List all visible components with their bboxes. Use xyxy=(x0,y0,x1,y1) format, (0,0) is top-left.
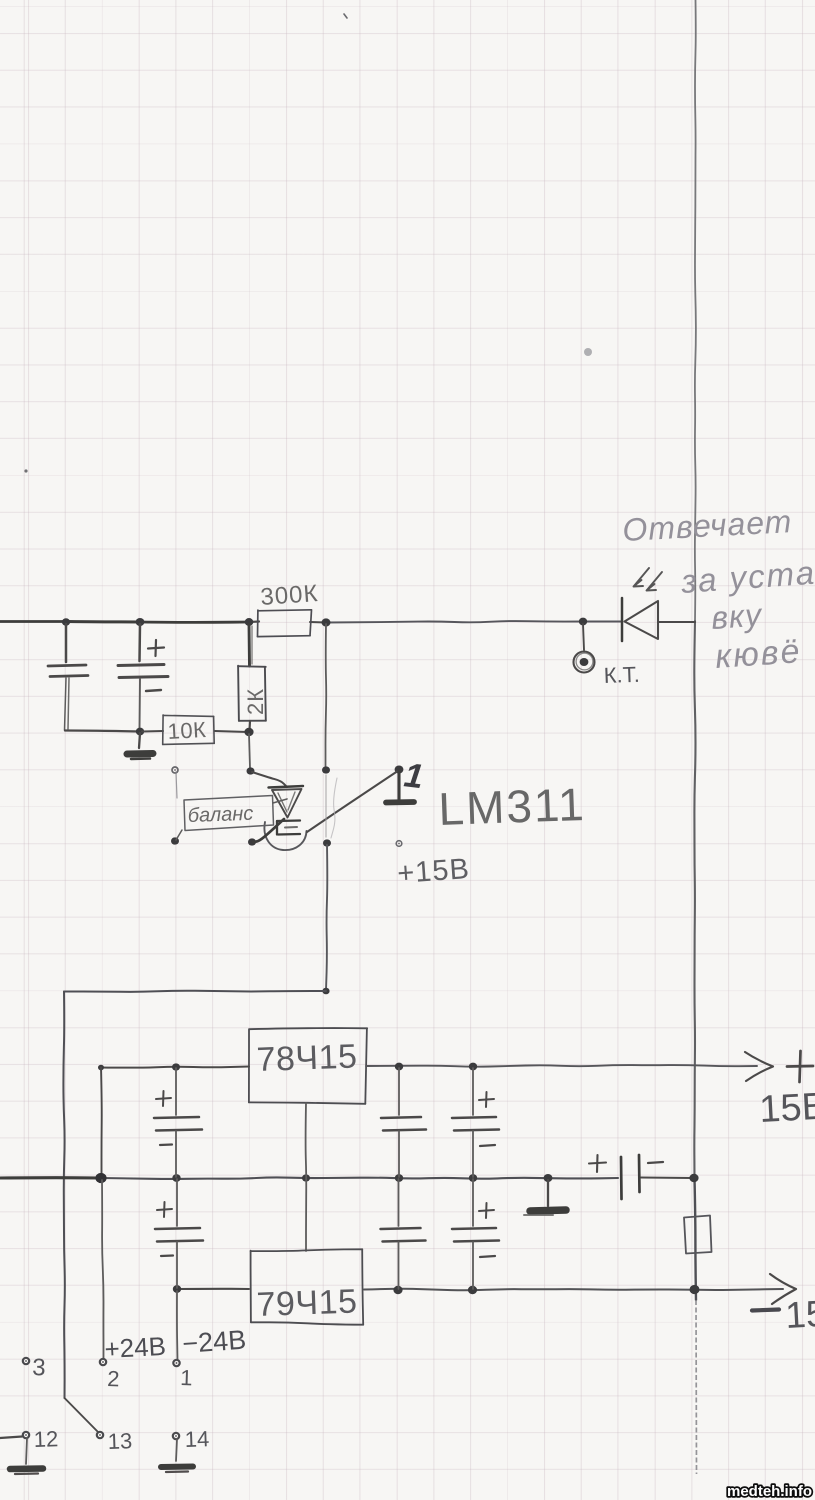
speck top xyxy=(344,14,347,18)
node mid rail C3C4 xyxy=(172,1174,180,1182)
terminal 3 pin xyxy=(23,1358,29,1364)
svg-text:+15В: +15В xyxy=(396,853,471,890)
svg-text:LM311: LM311 xyxy=(438,778,587,835)
node pin row2 b xyxy=(248,838,256,845)
capacitor C9 minus xyxy=(648,1162,663,1163)
capacitor C1 top lead xyxy=(65,624,68,662)
node mid rail gnd xyxy=(544,1174,553,1182)
capacitor C9 plus xyxy=(589,1155,606,1172)
label terminal 1 xyxy=(180,1365,193,1390)
node mid rail C5C6 xyxy=(395,1174,403,1182)
terminal 14 pin xyxy=(173,1433,179,1439)
terminal 14 ground lead xyxy=(176,1439,177,1461)
capacitor C4 (col176 bottom) xyxy=(155,1179,203,1288)
label 10K xyxy=(167,717,207,744)
annotation line1 xyxy=(621,503,793,548)
capacitor C1 plate top xyxy=(48,665,86,666)
photodiode cathode bar xyxy=(621,598,624,641)
wire bottom rail right xyxy=(364,1289,783,1290)
node top rail corner xyxy=(98,1065,104,1071)
transistor body arc xyxy=(264,822,306,850)
label +24V xyxy=(104,1331,167,1364)
arrow top rail xyxy=(745,1052,773,1081)
capacitor C1 bottom lead doubled xyxy=(65,678,70,730)
node top rail C3 xyxy=(172,1063,180,1070)
label 300K xyxy=(260,580,320,611)
label terminal 13 xyxy=(107,1428,132,1454)
capacitor C7 (col473 top) xyxy=(452,1068,499,1177)
svg-text:2К: 2К xyxy=(243,688,268,715)
wire left column upper xyxy=(100,1068,103,1177)
wire terminal2 lead xyxy=(102,1180,104,1359)
resistor 2K bottom lead xyxy=(248,721,251,730)
node top rail C5 xyxy=(395,1063,403,1071)
wire main bus segment A xyxy=(66,620,140,624)
label balance xyxy=(187,803,253,827)
node bottom rail C6 xyxy=(393,1286,402,1294)
capacitor C6 (col399 bottom) xyxy=(381,1179,426,1289)
wire R10K to node xyxy=(215,731,248,732)
svg-text:300К: 300К xyxy=(260,580,320,611)
speck left xyxy=(24,469,27,472)
node top rail C7 xyxy=(469,1063,477,1071)
ground mid rail bar xyxy=(524,1210,566,1215)
label terminal 14 xyxy=(184,1426,209,1452)
photodiode triangle xyxy=(625,601,659,639)
resistor 2K body xyxy=(238,666,266,721)
label -24V xyxy=(181,1325,247,1359)
label 78415 xyxy=(256,1038,358,1079)
annotation line4 xyxy=(714,632,803,676)
svg-text:1: 1 xyxy=(402,756,425,796)
ground pin1 bar xyxy=(386,799,414,805)
wire C1 to C2 bottom xyxy=(65,731,140,732)
capacitor C5 (col399 top) xyxy=(381,1068,426,1177)
transistor lower element xyxy=(277,821,300,835)
capacitor C2 plate top xyxy=(118,665,164,666)
node pin row1 c xyxy=(322,766,330,773)
wire main bus left segment xyxy=(0,620,66,623)
node junction bus-C2 xyxy=(136,618,145,626)
capacitor C2 plate bottom xyxy=(119,677,168,678)
transistor emitter stroke xyxy=(253,819,284,842)
wire node down to pin row xyxy=(249,734,250,768)
wire bottom rail left xyxy=(177,1288,249,1290)
node pin row2 a xyxy=(171,837,179,844)
terminal 1 pin xyxy=(173,1360,179,1366)
photodiode arrow 2 xyxy=(647,572,663,591)
svg-text:вку: вку xyxy=(710,596,764,636)
wire x325 pin to corner xyxy=(326,845,327,990)
svg-text:+24В: +24В xyxy=(104,1331,167,1364)
capacitor C9 right plate xyxy=(638,1155,641,1192)
node bottom rail C4 xyxy=(173,1285,181,1293)
label terminal 12 xyxy=(33,1426,58,1452)
balance box xyxy=(184,796,274,831)
svg-text:10К: 10К xyxy=(167,717,207,744)
wire regulator common xyxy=(305,1103,308,1251)
svg-text:15: 15 xyxy=(784,1293,815,1336)
label plus15 sign xyxy=(787,1051,813,1082)
arrow bottom rail xyxy=(770,1274,796,1304)
wire diode to vertical net xyxy=(658,621,695,623)
wire corner horizontal xyxy=(64,991,326,992)
wire mid rail main xyxy=(101,1177,618,1178)
ground mid rail lead xyxy=(547,1180,549,1206)
wire mid rail from edge xyxy=(0,1176,101,1179)
terminal 12 ground bar xyxy=(10,1469,43,1475)
wire top rail right xyxy=(366,1065,757,1067)
wire main bus into R 300K xyxy=(249,620,259,623)
capacitor C9 left plate xyxy=(620,1157,623,1199)
test point KT outer circle xyxy=(574,652,595,673)
capacitor C2 bottom lead xyxy=(139,679,142,729)
resistor 2K top lead xyxy=(249,624,252,666)
resistor 300K body xyxy=(258,610,312,637)
label LM311 xyxy=(438,778,587,835)
node junction bus-x325 xyxy=(322,618,331,626)
balance pointer xyxy=(273,799,287,803)
terminal 12 ground lead xyxy=(26,1438,27,1464)
balance box top lead xyxy=(176,772,177,798)
wire vertical net x=695 (middle) xyxy=(694,621,695,1178)
node junction bus-KT xyxy=(579,618,587,626)
svg-text:medteh.info: medteh.info xyxy=(727,1483,812,1500)
svg-text:Отвечает: Отвечает xyxy=(621,503,793,548)
label 2K xyxy=(243,688,268,715)
svg-text:12: 12 xyxy=(33,1426,58,1452)
wire vertical net x=695 (bottom faded) xyxy=(695,1300,698,1474)
terminal 13 pin xyxy=(97,1432,103,1438)
terminal 14 ground bar xyxy=(161,1467,193,1473)
wire C2 to R10K xyxy=(142,730,163,733)
transistor wire from pin xyxy=(252,772,287,787)
capacitor C2 plus sign xyxy=(148,640,164,656)
speck gray dot xyxy=(584,348,592,356)
capacitor C3 (col176 top) xyxy=(154,1068,202,1177)
label terminal 3 xyxy=(32,1354,46,1381)
test point KT center xyxy=(580,658,589,666)
node pin row1 d (pin1) xyxy=(395,765,404,773)
wire bus x325 down xyxy=(324,624,327,768)
wire vertical net x=695 (top) xyxy=(695,0,696,621)
label pin1 numeral xyxy=(402,756,425,796)
label 15V bottom xyxy=(784,1293,815,1336)
label KT xyxy=(603,662,640,688)
annotation line2 xyxy=(679,554,815,600)
capacitor C1 plate bottom xyxy=(50,676,88,677)
transistor triangle xyxy=(272,789,302,818)
node junction C2-gnd xyxy=(136,728,144,736)
test point KT lead xyxy=(583,624,584,650)
ground under C2 lead xyxy=(139,733,140,748)
svg-text:за уста: за уста xyxy=(679,554,815,600)
node junction R10K-R2K xyxy=(244,728,253,736)
pin terminal row1 a xyxy=(172,767,178,773)
wire diagonal to pin1 ground xyxy=(307,772,397,833)
wire main bus after R 300K xyxy=(310,621,326,624)
node junction bus-C1 xyxy=(62,618,70,626)
node mid rail reg xyxy=(302,1174,310,1181)
node pin row2 c xyxy=(323,839,331,846)
svg-text:1: 1 xyxy=(180,1365,193,1390)
ground under C2 bar xyxy=(127,754,153,760)
wire bus test point to diode xyxy=(583,621,621,623)
label minus15 sign xyxy=(752,1310,779,1311)
balance box lead to pin xyxy=(176,830,182,840)
pin terminal row2 d xyxy=(396,841,402,847)
label 79415 xyxy=(256,1283,358,1324)
resistor 10K body xyxy=(163,715,215,745)
wire diagonal to terminal 13 xyxy=(65,1398,99,1432)
wire into terminal 12 xyxy=(0,1437,22,1439)
regulator U2 body xyxy=(249,1028,367,1104)
svg-text:78Ч15: 78Ч15 xyxy=(256,1038,358,1079)
node mid rail net xyxy=(689,1174,698,1182)
node bottom rail net xyxy=(690,1285,700,1294)
wire main bus segment B xyxy=(140,621,249,624)
watermark medteh.info xyxy=(727,1483,812,1500)
capacitor C2 top lead xyxy=(138,624,141,661)
label +15V xyxy=(396,853,471,890)
transistor top bar xyxy=(269,786,304,788)
wire main bus to test point xyxy=(326,621,583,622)
capacitor C8 (col473 bottom) xyxy=(452,1179,499,1289)
capacitor C2 minus sign xyxy=(146,690,161,691)
node bottom rail C8 xyxy=(468,1286,477,1294)
svg-text:14: 14 xyxy=(184,1426,209,1452)
label terminal 2 xyxy=(107,1366,120,1391)
terminal 2 pin xyxy=(100,1359,106,1365)
wire mid rail after cap xyxy=(641,1177,692,1180)
svg-text:15В: 15В xyxy=(758,1086,815,1131)
svg-text:3: 3 xyxy=(32,1354,46,1381)
svg-text:кювё: кювё xyxy=(714,632,803,676)
node junction bus-R300K-R2K xyxy=(245,618,254,626)
smudge near transistor xyxy=(331,778,337,838)
annotation line3 xyxy=(710,596,764,636)
svg-text:К.Т.: К.Т. xyxy=(603,662,640,688)
node pin row1 b xyxy=(247,767,255,774)
photodiode arrow 1 xyxy=(634,568,650,587)
svg-text:−24В: −24В xyxy=(181,1325,247,1359)
wire terminal1 lead xyxy=(176,1291,179,1360)
label 15V top xyxy=(758,1086,815,1131)
svg-text:баланс: баланс xyxy=(187,803,253,827)
svg-text:79Ч15: 79Ч15 xyxy=(256,1283,358,1324)
wire top rail left xyxy=(101,1067,249,1068)
wire left vertical long xyxy=(63,992,64,1399)
node corner junction xyxy=(322,988,329,995)
wire vertical net x=695 (lower) xyxy=(695,1178,697,1300)
terminal 12 pin xyxy=(23,1432,29,1438)
connector box on net xyxy=(684,1216,712,1254)
ground pin1 lead xyxy=(397,771,400,799)
regulator U3 body xyxy=(251,1249,364,1324)
svg-text:13: 13 xyxy=(107,1428,132,1454)
node mid rail big xyxy=(95,1173,106,1183)
wire faint x326 between rows xyxy=(325,775,327,837)
node mid rail C7C8 xyxy=(469,1174,477,1182)
svg-text:2: 2 xyxy=(107,1366,120,1391)
